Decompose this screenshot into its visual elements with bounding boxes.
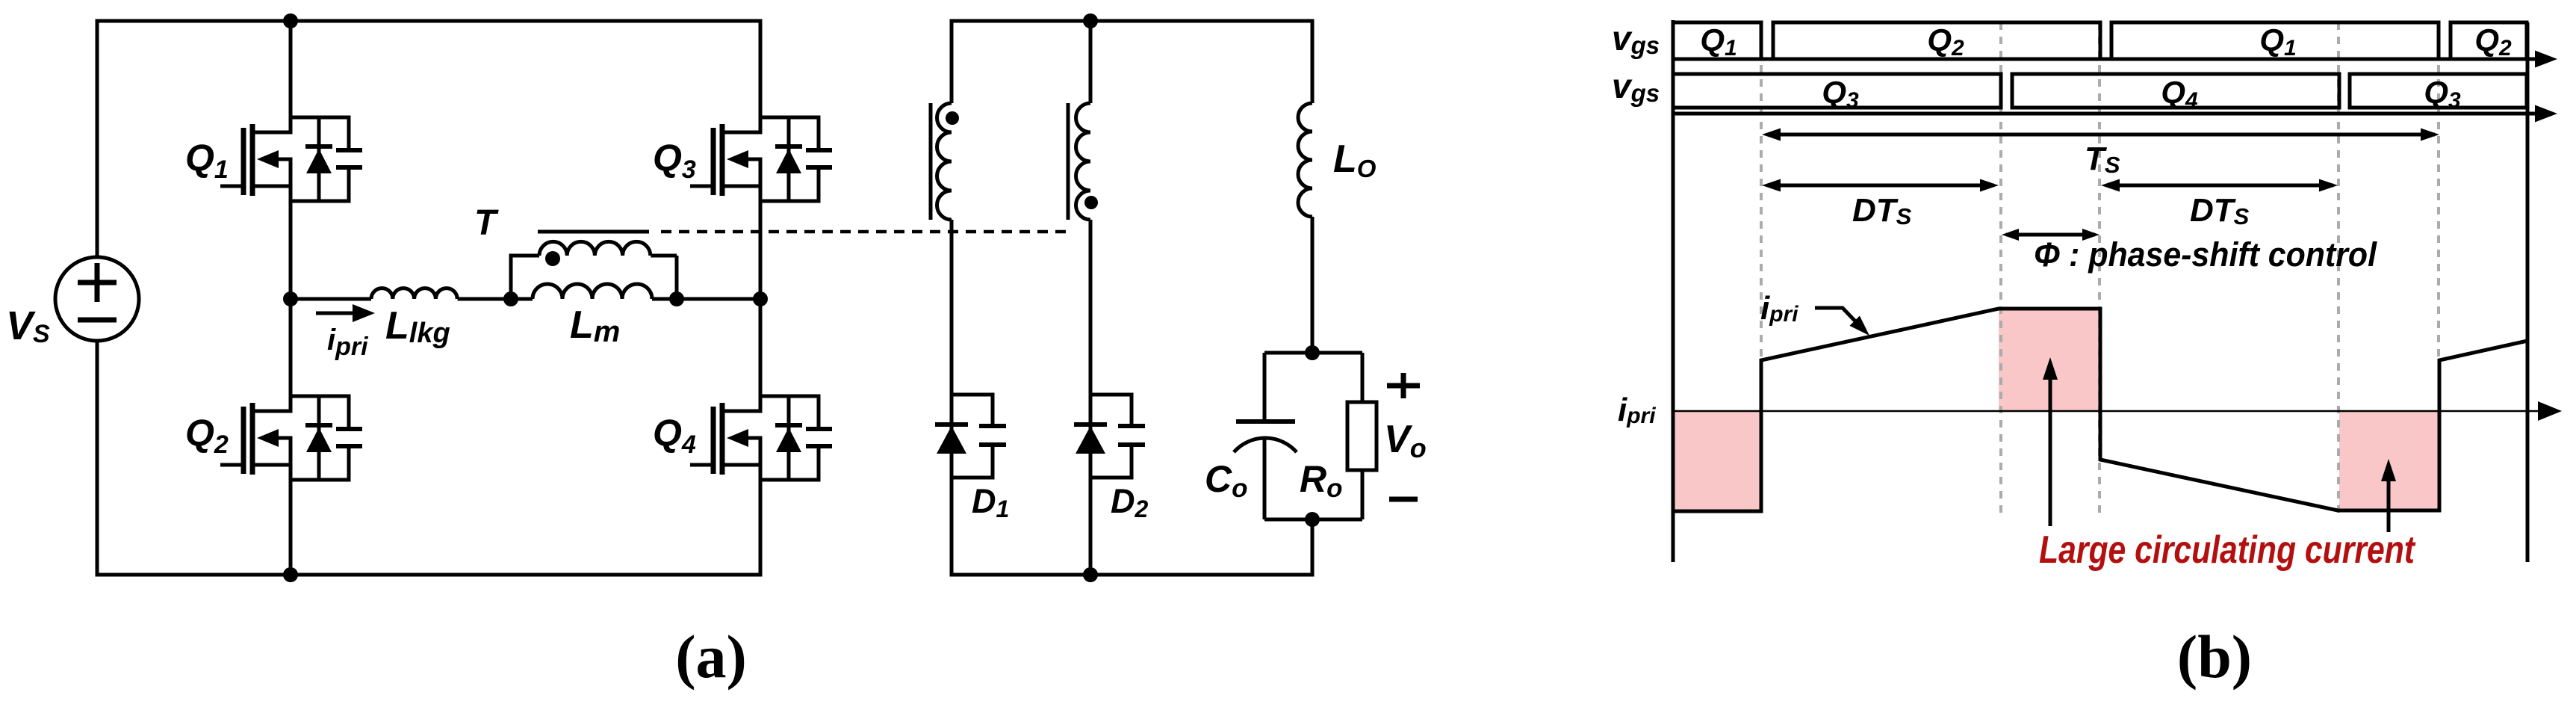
axis : row 1 baseline (1673, 58, 2538, 61)
svg-text:ipri: ipri (1618, 392, 1656, 428)
svg-text:Llkg: Llkg (385, 304, 450, 349)
svg-text:LO: LO (1333, 138, 1377, 182)
svg-text:D1: D1 (972, 482, 1009, 522)
wire : input bottom rail (97, 573, 760, 577)
wire : secondary bottom rail (952, 573, 1312, 577)
node : output top (1305, 345, 1320, 360)
svg-text:Large circulating current: Large circulating current (2039, 528, 2416, 572)
svg-text:Q2: Q2 (2474, 22, 2512, 61)
wire : secondary top rail (952, 19, 1312, 23)
gridline t1 (1760, 22, 1763, 357)
dimension arrow phase shift (2006, 233, 2095, 237)
leader arrow ipri (1815, 308, 1859, 325)
node : secondary top junction (1083, 13, 1098, 28)
svg-text:vgs: vgs (1612, 67, 1660, 107)
waveform vgs Q1 pulse 2 (2111, 22, 2439, 59)
transistor Q2 (220, 395, 362, 482)
node : half-bridge midpoint A (289, 159, 293, 299)
waveform vgs Q3 pulse 1 (1673, 74, 2001, 108)
svg-text:Lm: Lm (570, 303, 620, 348)
svg-text:Q3: Q3 (2424, 75, 2461, 113)
inductor Lm (511, 297, 533, 301)
wire : output parallel top (1264, 351, 1362, 355)
svg-text:D2: D2 (1111, 482, 1149, 522)
svg-text:Q3: Q3 (653, 137, 696, 184)
waveform vgs Q3 pulse 2 (2350, 74, 2527, 108)
polarity dot primary (545, 251, 560, 266)
svg-text:Q3: Q3 (1822, 75, 1859, 113)
node : bottom rail junction (1083, 567, 1098, 582)
svg-text:ipri: ipri (1760, 290, 1798, 327)
svg-text:Q1: Q1 (185, 137, 229, 184)
wire : Q1 drain leg (289, 21, 293, 132)
svg-text:DTS: DTS (1852, 192, 1912, 229)
transformer core line (538, 230, 649, 234)
resistor Ro (1347, 353, 1377, 519)
wire : Llkg to transformer (458, 297, 511, 301)
voltage source VS (55, 257, 139, 341)
shaded region : circulating current 1 (1675, 411, 1761, 510)
svg-text:Q4: Q4 (653, 412, 696, 459)
svg-text:VS: VS (6, 303, 50, 348)
polarity dot secondary 2 (1084, 196, 1098, 209)
wire : transformer to Q3/Q4 midpoint (677, 297, 760, 301)
wire : Q4 leg (759, 299, 763, 411)
label + output polarity (1387, 373, 1420, 398)
transformer T primary winding (509, 241, 677, 299)
wire : winding 1 to D1 to bottom rail (950, 220, 954, 577)
gridline t2 (1999, 22, 2002, 514)
transistor Q1 (220, 116, 362, 203)
dimension arrow DTs 1 (1767, 184, 1994, 188)
svg-text:Q2: Q2 (1927, 22, 1964, 61)
capacitor Co (1234, 353, 1297, 519)
svg-text:Co: Co (1205, 458, 1248, 503)
svg-text:Ro: Ro (1300, 458, 1343, 503)
transformer secondary winding 1 (937, 103, 952, 220)
wire : input top rail (97, 19, 760, 23)
waveform vgs Q4 pulse (2012, 74, 2339, 108)
wire : secondary winding 2 leg upper (1089, 21, 1093, 103)
node : transformer right (669, 291, 684, 306)
wire : input left rail (96, 19, 99, 258)
svg-text:Vo: Vo (1384, 418, 1427, 463)
waveform ipri (1675, 309, 2527, 511)
arrow circulating current 2 (2049, 374, 2052, 526)
node : output bottom (1305, 512, 1320, 527)
svg-text:DTS: DTS (2190, 192, 2250, 229)
axis : row 2 baseline (1673, 112, 2538, 116)
svg-text:Q4: Q4 (2161, 75, 2198, 113)
axis : ipri zero line (1673, 410, 2539, 413)
svg-text:Q1: Q1 (1700, 22, 1737, 61)
arrow ipri (316, 312, 357, 315)
axis : left vertical (1672, 20, 1675, 562)
svg-text:(a): (a) (675, 623, 747, 691)
svg-text:T: T (474, 203, 499, 243)
shaded region : circulating current 2 (1999, 309, 2100, 411)
wire : output parallel bottom (1264, 518, 1362, 522)
svg-text:TS: TS (2085, 141, 2120, 178)
wire : output bottom to rail (1311, 519, 1315, 577)
wire : winding 2 to D2 to bottom rail (1089, 220, 1093, 575)
waveform vgs Q2 pulse 2 (2451, 22, 2527, 59)
wire : Q2 leg (289, 299, 293, 411)
waveform vgs Q2 pulse 1 (1773, 22, 2100, 59)
gridline t5 (2437, 22, 2440, 357)
node : transformer left (503, 291, 518, 306)
transformer core dashed coupling line (661, 230, 1071, 234)
waveform vgs Q1 pulse 1 (1673, 22, 1761, 59)
core bar secondary 2 (1067, 103, 1070, 220)
arrow circulating current 3 (2387, 475, 2391, 532)
svg-text:Φ : phase-shift control: Φ : phase-shift control (2034, 235, 2377, 274)
transistor Q3 (690, 116, 832, 203)
wire : secondary winding 1 leg upper (950, 19, 954, 104)
core bar secondary 1 (929, 103, 933, 220)
wire : node A to Llkg (291, 297, 371, 301)
shaded region : circulating current 3 (2339, 411, 2439, 510)
diode D2 (1074, 393, 1145, 480)
gridline t4 (2337, 22, 2340, 514)
inductor LO (1311, 19, 1315, 104)
svg-text:ipri: ipri (327, 324, 369, 361)
dimension arrow Ts (1767, 133, 2435, 137)
label - output polarity (1389, 497, 1418, 502)
diode D1 (935, 393, 1006, 480)
polarity dot secondary 1 (946, 111, 959, 125)
svg-text:vgs: vgs (1612, 19, 1660, 59)
svg-text:Q2: Q2 (185, 412, 229, 459)
inductor Llkg (371, 288, 457, 299)
dimension arrow DTs 2 (2106, 184, 2333, 188)
svg-text:Q1: Q1 (2259, 22, 2296, 61)
wire : Q3 drain leg (759, 19, 763, 133)
axis : right boundary vertical (2526, 22, 2530, 562)
gridline t3 (2098, 22, 2101, 514)
transistor Q4 (690, 395, 832, 482)
svg-text:(b): (b) (2177, 623, 2252, 691)
transformer secondary winding 2 (1076, 103, 1091, 220)
